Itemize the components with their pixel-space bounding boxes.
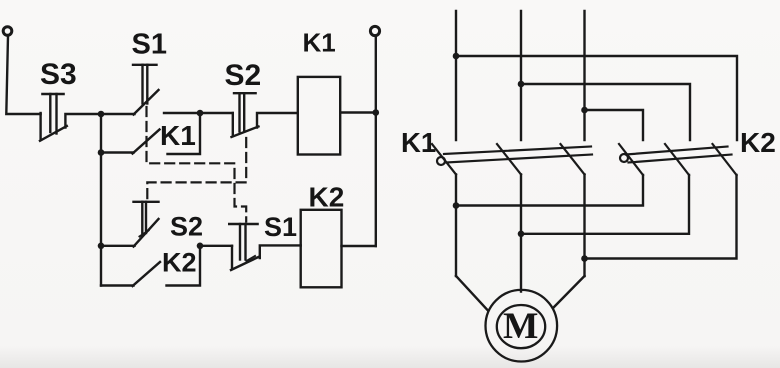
pushbutton S2 lower (NO start rev) [101,202,159,247]
wire F to S1 lower [200,245,232,247]
wire left rail down [100,153,102,286]
pushbutton S3 (NC stop) [40,94,101,141]
wire K1 pole3 down [583,175,585,277]
svg-text:M: M [503,306,538,347]
contact K1 aux (holding, NO) [101,113,200,154]
node junction E (101,245.8) [98,243,105,250]
svg-text:S3: S3 [40,58,77,91]
coil K1 [298,77,340,155]
node junction C (200,113) [197,110,204,117]
node junction D (375.8,112.5) [373,109,380,116]
crossover wire L3 to K2 pole1 [585,110,644,140]
wire K1 coil to right rail [340,111,376,113]
node junction B (101,152.5) [98,149,105,156]
svg-text:K2: K2 [162,248,197,278]
svg-text:K2: K2 [309,182,345,213]
svg-text:S2: S2 [170,212,203,242]
svg-text:S1: S1 [132,29,167,61]
wire junction A down to B [100,114,102,153]
phase wire L3 [583,11,585,140]
contact K2 aux (holding, NO) [101,246,200,286]
mechanical link S1 (dashed) [147,107,247,222]
wire tie K1p3-K2p3 [585,175,737,259]
svg-text:S2: S2 [225,59,262,92]
wire tie K1p2-K2p2 [521,175,689,234]
wire K1 pole1 down [455,175,457,277]
pushbutton S1 lower (NC interlock) [229,224,301,270]
contactor K2 main contacts [619,144,737,175]
node L1 tap [453,53,460,60]
svg-text:S1: S1 [264,212,297,242]
motor M [486,290,558,362]
node G (456,205.5) [453,202,460,209]
coil K2 [301,210,342,287]
wire K1 pole2 down [520,175,522,292]
contactor K1 main contacts [432,144,592,175]
node junction F (200,245.8) [197,243,204,250]
wire K2 coil to right rail [342,245,376,247]
node I (584.5,258.5) [581,255,588,262]
mechanical link S2 (dashed) [147,138,246,200]
wire S1 to S2 [164,112,233,114]
node L2 tap [518,81,525,88]
node junction A (101,114) [98,111,105,118]
svg-text:K1: K1 [303,28,336,58]
node H (521,233.8) [518,231,525,238]
wire to motor left [456,276,488,310]
pushbutton S1 (NO start fwd) [101,65,159,115]
wire from X1 down [6,36,40,114]
phase wire L2 [520,11,522,140]
pushbutton S2 (NC interlock) [232,93,298,137]
crossover wire L1 to K2 pole3 [456,56,737,140]
svg-text:K1: K1 [401,127,436,158]
wire to motor right [554,276,585,307]
svg-text:K2: K2 [740,127,776,158]
svg-text:K1: K1 [160,120,196,151]
wire tie K1p1-K2p1 [456,175,643,206]
terminal X1 (top left) [3,27,12,36]
phase wire L1 [455,11,457,140]
wire right rail [375,36,377,246]
node L3 tap [581,107,588,114]
crossover wire L2 to K2 pole2 [521,84,690,140]
terminal X2 (top right of control) [370,26,379,35]
